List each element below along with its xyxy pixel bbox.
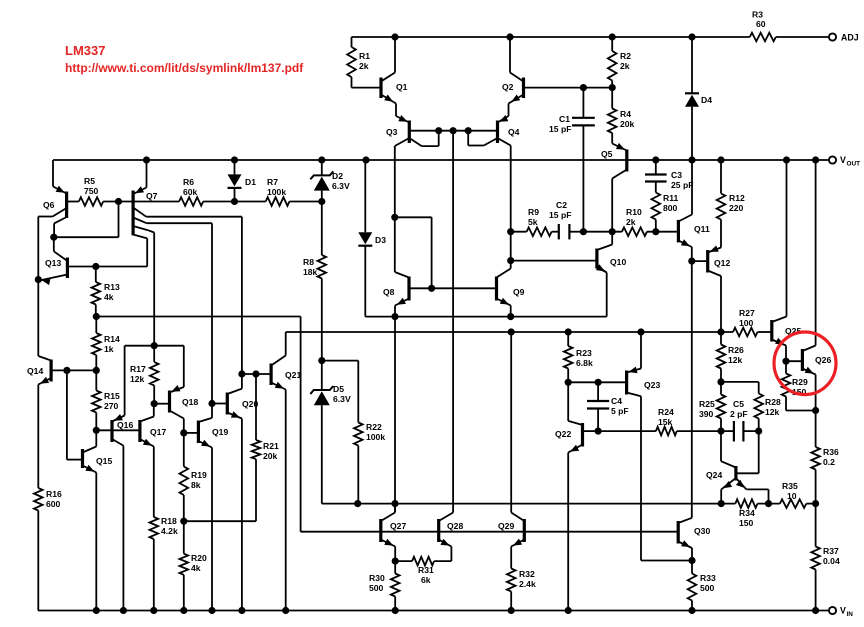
svg-text:R13: R13 [104, 282, 120, 292]
svg-text:15 pF: 15 pF [549, 210, 571, 220]
transistor Q20 [209, 374, 259, 611]
svg-text:2k: 2k [626, 217, 636, 227]
svg-text:R2: R2 [620, 51, 631, 61]
capacitor C3 [645, 160, 693, 193]
svg-text:D5: D5 [333, 384, 344, 394]
resistor R1 [347, 37, 370, 88]
svg-text:20k: 20k [263, 451, 278, 461]
diode D1 [228, 160, 257, 202]
svg-text:R9: R9 [528, 207, 539, 217]
svg-text:R24: R24 [658, 407, 674, 417]
svg-text:Q28: Q28 [447, 521, 463, 531]
wire reference line [286, 329, 772, 335]
svg-text:500: 500 [700, 583, 715, 593]
wire Q8 base tie [392, 214, 432, 288]
resistor R18 [150, 516, 178, 611]
svg-text:0.04: 0.04 [823, 556, 840, 566]
svg-text:Q15: Q15 [96, 456, 112, 466]
svg-text:Q5: Q5 [601, 149, 613, 159]
svg-text:60: 60 [756, 19, 766, 29]
transistor Q26 [786, 160, 831, 411]
resistor R17 [130, 343, 159, 407]
resistor R3 [750, 10, 776, 42]
svg-text:8k: 8k [191, 480, 201, 490]
node top rail dots [392, 34, 695, 40]
wire R28 top link [721, 382, 759, 394]
svg-text:Q16: Q16 [117, 420, 133, 430]
resistor R13 [92, 267, 120, 317]
svg-text:R11: R11 [663, 193, 679, 203]
svg-text:5k: 5k [528, 217, 538, 227]
node VOUT rail dots [143, 157, 818, 163]
svg-text:Q18: Q18 [182, 397, 198, 407]
resistor R34 [735, 499, 757, 528]
transistor Q15 [67, 370, 113, 610]
node Q3 Q4 base dots [436, 128, 472, 134]
annotation red circle Q26 [774, 332, 836, 395]
transistor Q16 [93, 346, 140, 611]
svg-text:100k: 100k [267, 187, 286, 197]
svg-text:12k: 12k [130, 374, 145, 384]
svg-text:R8: R8 [303, 257, 314, 267]
svg-text:800: 800 [663, 203, 678, 213]
svg-text:R26: R26 [728, 345, 744, 355]
svg-text:10: 10 [787, 491, 797, 501]
svg-text:12k: 12k [765, 407, 780, 417]
svg-text:2.4k: 2.4k [519, 579, 536, 589]
svg-text:6.3V: 6.3V [332, 181, 350, 191]
svg-text:Q20: Q20 [242, 399, 258, 409]
svg-text:R36: R36 [823, 447, 839, 457]
svg-text:D1: D1 [245, 177, 256, 187]
svg-text:R34: R34 [739, 508, 755, 518]
capacitor C2 [549, 200, 583, 239]
svg-text:2k: 2k [620, 61, 630, 71]
transistor Q10 [508, 232, 627, 273]
svg-text:R28: R28 [765, 397, 781, 407]
wire Q3Q4 base down [452, 131, 454, 513]
svg-text:D4: D4 [701, 95, 712, 105]
svg-text:Q22: Q22 [555, 429, 571, 439]
transistor Q18 [154, 346, 198, 467]
svg-text:R19: R19 [191, 470, 207, 480]
svg-text:R17: R17 [130, 364, 146, 374]
svg-text:V: V [840, 155, 846, 165]
resistor R9 [527, 207, 552, 236]
svg-text:6.8k: 6.8k [576, 358, 593, 368]
transistor Q7 [133, 160, 158, 235]
wire Q7 finger3 [133, 226, 154, 346]
svg-text:0.2: 0.2 [823, 457, 835, 467]
resistor R11 [652, 193, 679, 235]
svg-text:C2: C2 [556, 200, 567, 210]
svg-text:Q8: Q8 [383, 287, 395, 297]
wire R21 link [184, 459, 256, 521]
transistor Q6 [38, 160, 66, 237]
svg-text:R27: R27 [739, 308, 755, 318]
svg-text:R30: R30 [369, 573, 385, 583]
transistor Q1 [352, 37, 410, 123]
svg-text:220: 220 [729, 203, 744, 213]
svg-text:C4: C4 [611, 396, 622, 406]
svg-text:Q24: Q24 [706, 470, 722, 480]
svg-text:Q6: Q6 [43, 200, 55, 210]
svg-text:Q29: Q29 [498, 521, 514, 531]
capacitor C1 [549, 88, 595, 235]
wire Q3 collector vertical [395, 146, 409, 278]
node bottom rail dots [93, 607, 819, 613]
transistor Q22 [555, 382, 598, 610]
text title LM337 [65, 43, 105, 58]
wire bias line left [93, 313, 300, 531]
resistor R32 [507, 569, 536, 611]
wire R24 to R25 node [677, 430, 721, 432]
svg-text:R29: R29 [792, 377, 808, 387]
resistor R10 [622, 207, 647, 236]
svg-text:R4: R4 [620, 109, 631, 119]
transistor Q21 [239, 332, 302, 611]
svg-text:R5: R5 [84, 176, 95, 186]
svg-text:R20: R20 [191, 553, 207, 563]
transistor Q17 [140, 404, 167, 517]
svg-text:Q27: Q27 [390, 521, 406, 531]
transistor Q11 [678, 160, 710, 261]
resistor R12 [717, 160, 745, 248]
svg-text:C5: C5 [733, 399, 744, 409]
svg-text:25 pF: 25 pF [671, 180, 693, 190]
svg-text:4.2k: 4.2k [161, 526, 178, 536]
wire Q8 Q9 long vertical [394, 317, 396, 513]
svg-text:18k: 18k [303, 267, 318, 277]
wire output stage base rail [301, 531, 679, 533]
transistor Q23 [627, 332, 661, 396]
diode D5 zener [310, 358, 351, 504]
svg-text:5 pF: 5 pF [611, 406, 629, 416]
svg-text:Q11: Q11 [694, 224, 710, 234]
diode D3 [358, 160, 386, 317]
transistor Q13 [41, 237, 148, 285]
svg-text:R32: R32 [519, 569, 535, 579]
svg-text:R3: R3 [752, 10, 763, 20]
wire Q7 finger4 [133, 235, 147, 267]
wire lower line [322, 501, 736, 507]
svg-text:15 pF: 15 pF [549, 124, 571, 134]
svg-text:Q30: Q30 [694, 526, 710, 536]
svg-text:D3: D3 [375, 235, 386, 245]
diode D2 zener [310, 160, 350, 202]
node Q12 base dot [689, 258, 695, 264]
svg-text:750: 750 [84, 186, 99, 196]
svg-text:Q1: Q1 [396, 82, 408, 92]
wire R9 line [508, 229, 527, 235]
terminal ADJ [829, 33, 859, 43]
transistor Q19 [184, 418, 229, 611]
wire R6 to R7 [203, 198, 266, 204]
wire R10 line [583, 231, 622, 233]
svg-text:R33: R33 [700, 573, 716, 583]
wire bottom rail [38, 610, 829, 612]
svg-text:Q21: Q21 [285, 370, 301, 380]
transistor Q9 [497, 277, 525, 317]
wire top rail [352, 36, 829, 38]
resistor R30 [369, 558, 400, 611]
transistor Q27 [381, 504, 407, 561]
svg-text:6k: 6k [421, 575, 431, 585]
svg-text:C1: C1 [559, 114, 570, 124]
transistor Q24 [706, 431, 769, 504]
svg-text:R15: R15 [104, 391, 120, 401]
svg-text:V: V [840, 606, 846, 616]
resistor R15 [92, 370, 120, 430]
svg-text:100k: 100k [366, 432, 385, 442]
transistor Q14 [27, 360, 99, 385]
node Q26 base dot [783, 358, 789, 364]
resistor R6 [179, 177, 203, 206]
resistor R21 [252, 374, 279, 461]
resistor R20 [180, 518, 207, 610]
svg-text:D2: D2 [332, 171, 343, 181]
svg-text:Q10: Q10 [610, 257, 626, 267]
svg-text:20k: 20k [620, 119, 635, 129]
wire Q7 finger1 [133, 208, 242, 375]
svg-text:R14: R14 [104, 334, 120, 344]
wire R24 line [595, 428, 656, 434]
node Q2 base dots [580, 85, 615, 91]
resistor R8 [303, 202, 326, 361]
svg-text:http://www.ti.com/lit/ds/symli: http://www.ti.com/lit/ds/symlink/lm137.p… [65, 61, 304, 75]
svg-text:R23: R23 [576, 348, 592, 358]
resistor R23 [564, 332, 593, 382]
wire Q23 collector down [641, 396, 692, 560]
svg-text:Q9: Q9 [513, 287, 525, 297]
wire R35 to R36 node [806, 501, 818, 507]
transistor Q12 [692, 246, 731, 333]
transistor Q28 [439, 513, 464, 562]
transistor Q2 [498, 37, 613, 123]
resistor R7 [266, 177, 290, 206]
wire Q16 Q18 emitter line [125, 345, 184, 347]
wire R5 to R6 [103, 198, 179, 204]
wire Q4 collector vertical [497, 146, 511, 278]
resistor R36 [811, 411, 839, 504]
node emitter rail dots [392, 314, 514, 320]
svg-text:R18: R18 [161, 516, 177, 526]
resistor R24 [656, 407, 677, 435]
transistor Q29 [498, 332, 524, 569]
capacitor C4 [587, 382, 629, 431]
transistor Q4 [468, 121, 519, 146]
resistor R37 [811, 504, 840, 611]
svg-text:Q19: Q19 [212, 427, 228, 437]
resistor R35 [780, 481, 806, 508]
resistor R4 [608, 88, 635, 144]
transistor Q25 [772, 160, 802, 361]
resistor R25 [699, 382, 725, 431]
svg-text:1k: 1k [104, 344, 114, 354]
svg-text:100: 100 [739, 318, 754, 328]
resistor R19 [180, 430, 207, 521]
svg-text:R35: R35 [782, 481, 798, 491]
svg-text:R10: R10 [626, 207, 642, 217]
wire Q11 emitter long vertical [691, 261, 693, 518]
resistor R26 [717, 332, 744, 382]
resistor R31 [395, 557, 451, 585]
transistor Q3 [386, 121, 498, 147]
transistor Q30 [678, 518, 710, 564]
resistor R28 [754, 394, 781, 432]
svg-text:Q23: Q23 [644, 380, 660, 390]
resistor R5 [67, 176, 104, 206]
diode D4 [685, 37, 712, 160]
svg-text:R31: R31 [418, 565, 434, 575]
svg-text:OUT: OUT [847, 161, 861, 168]
resistor R33 [688, 561, 716, 611]
svg-text:2 pF: 2 pF [730, 409, 748, 419]
resistor R29 [782, 361, 819, 413]
svg-text:Q3: Q3 [386, 127, 398, 137]
svg-text:Q2: Q2 [502, 82, 514, 92]
resistor R27 [733, 308, 758, 336]
node R26 bottom dot [718, 379, 724, 385]
resistor R22 [354, 422, 385, 504]
svg-text:12k: 12k [728, 355, 743, 365]
svg-text:4k: 4k [104, 292, 114, 302]
wire Q11 base [647, 231, 679, 233]
transistor Q8 [383, 277, 497, 317]
wire Q7 finger2 [133, 218, 212, 418]
svg-text:IN: IN [847, 611, 854, 618]
svg-text:LM337: LM337 [65, 43, 105, 58]
svg-text:C3: C3 [671, 170, 682, 180]
svg-text:Q14: Q14 [27, 366, 43, 376]
svg-text:R16: R16 [46, 489, 62, 499]
svg-text:Q17: Q17 [150, 427, 166, 437]
svg-text:270: 270 [104, 401, 119, 411]
svg-text:15k: 15k [658, 417, 673, 427]
resistor R2 [608, 37, 631, 88]
svg-text:390: 390 [699, 409, 714, 419]
resistor R16 [34, 385, 62, 611]
svg-text:R12: R12 [729, 193, 745, 203]
svg-text:Q12: Q12 [714, 258, 730, 268]
svg-text:2k: 2k [359, 61, 369, 71]
svg-text:150: 150 [739, 518, 754, 528]
wire emitter rail [365, 268, 606, 317]
svg-text:Q26: Q26 [815, 355, 831, 365]
text datasheet url [65, 61, 304, 75]
svg-text:R6: R6 [183, 177, 194, 187]
transistor Q5 [601, 143, 627, 235]
terminal VOUT [829, 155, 860, 168]
svg-text:R22: R22 [366, 422, 382, 432]
svg-text:6.3V: 6.3V [333, 394, 351, 404]
wire R34 to R35 [758, 501, 780, 507]
wire Q23 base line [565, 379, 626, 385]
resistor R14 [92, 317, 120, 371]
svg-text:R7: R7 [267, 177, 278, 187]
svg-text:Q7: Q7 [146, 191, 158, 201]
wire D5 R22 link [322, 361, 359, 423]
wire Q6 collector loop [35, 202, 118, 361]
svg-text:R21: R21 [263, 441, 279, 451]
svg-text:R37: R37 [823, 546, 839, 556]
svg-text:500: 500 [369, 583, 384, 593]
svg-text:600: 600 [46, 499, 61, 509]
wire R7 to D2 [289, 198, 325, 204]
svg-text:4k: 4k [191, 563, 201, 573]
capacitor C5 [718, 399, 762, 442]
svg-text:Q13: Q13 [45, 258, 61, 268]
svg-text:R25: R25 [699, 399, 715, 409]
terminal VIN [829, 606, 853, 619]
wire VOUT rail [53, 159, 829, 161]
svg-text:Q4: Q4 [508, 127, 520, 137]
svg-text:ADJ: ADJ [841, 33, 859, 43]
svg-text:60k: 60k [183, 187, 198, 197]
svg-text:R1: R1 [359, 51, 370, 61]
